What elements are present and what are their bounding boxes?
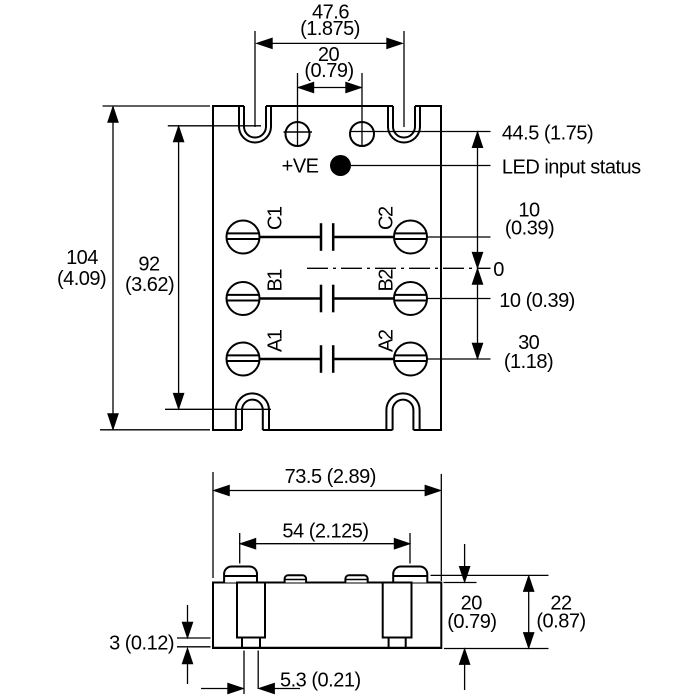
- svg-text:44.5 (1.75): 44.5 (1.75): [502, 122, 593, 144]
- svg-text:C1: C1: [265, 206, 287, 230]
- svg-text:(0.79): (0.79): [304, 60, 353, 82]
- svg-text:92: 92: [138, 253, 160, 275]
- svg-text:(1.18): (1.18): [504, 351, 553, 373]
- svg-text:(3.62): (3.62): [125, 274, 174, 296]
- svg-text:73.5 (2.89): 73.5 (2.89): [285, 466, 376, 488]
- svg-text:B1: B1: [265, 269, 287, 292]
- svg-text:(0.87): (0.87): [536, 611, 585, 633]
- svg-text:54 (2.125): 54 (2.125): [282, 520, 368, 542]
- svg-text:A2: A2: [376, 329, 398, 352]
- svg-text:5.3 (0.21): 5.3 (0.21): [280, 670, 361, 692]
- svg-text:104: 104: [66, 247, 98, 269]
- svg-text:0: 0: [493, 259, 504, 281]
- svg-text:(0.39): (0.39): [505, 218, 554, 240]
- svg-text:(4.09): (4.09): [57, 268, 106, 290]
- svg-text:(0.79): (0.79): [447, 611, 496, 633]
- svg-text:3 (0.12): 3 (0.12): [109, 633, 174, 655]
- svg-text:10 (0.39): 10 (0.39): [499, 290, 575, 312]
- svg-text:(1.875): (1.875): [300, 18, 360, 40]
- svg-text:+VE: +VE: [282, 156, 319, 178]
- svg-text:LED input status: LED input status: [502, 157, 641, 179]
- svg-text:B2: B2: [376, 269, 398, 292]
- svg-text:A1: A1: [265, 329, 287, 352]
- svg-text:C2: C2: [376, 206, 398, 230]
